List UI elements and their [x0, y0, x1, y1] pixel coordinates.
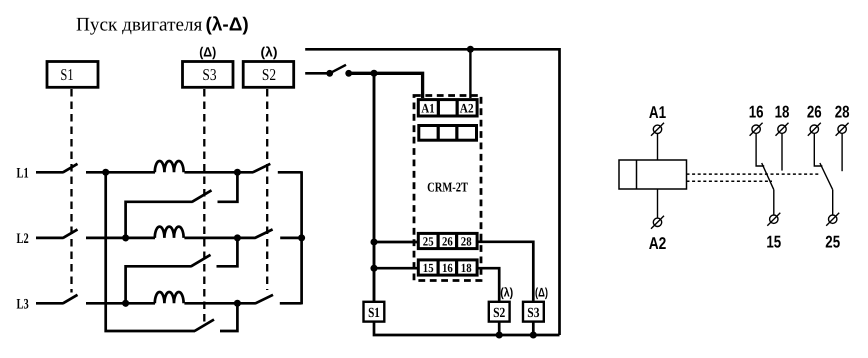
terminal 25 — [826, 213, 839, 226]
svg-text:S3: S3 — [202, 65, 216, 84]
junction dot L1 x237 — [234, 169, 241, 176]
dotted actuation link upper — [687, 173, 819, 175]
contact dot left — [326, 70, 333, 77]
wire L2 winding to star switch — [184, 237, 255, 240]
wire delta branch 3 right part — [220, 303, 237, 331]
wire S1 control vertical — [373, 73, 376, 301]
wire L2 to star bus — [280, 237, 301, 240]
wire common 15 — [773, 190, 775, 215]
winding W2 (inductor) — [155, 227, 184, 238]
wire delta branch 2 (L3 start to L2 end) — [126, 266, 192, 303]
contact K3(delta) blade on branch 3 — [195, 320, 214, 332]
relay CRM-2T dashed outline — [414, 96, 481, 281]
wire coil to A2 — [657, 189, 659, 218]
svg-text:28: 28 — [835, 103, 850, 122]
terminal A2 — [651, 216, 664, 229]
wire delta branch 3 (L1 start to L3 end) — [106, 172, 195, 331]
junction dot A2 branch — [467, 46, 474, 53]
wire S3 bottom — [532, 322, 535, 335]
contact K2(star) blade on L1 — [253, 164, 270, 173]
svg-text:L1: L1 — [17, 166, 29, 182]
wire L1 winding to star switch — [184, 171, 253, 174]
svg-text:S3: S3 — [527, 306, 539, 321]
winding W1 (inductor) — [155, 161, 184, 172]
dashed link S2 to star contacts — [266, 89, 268, 290]
junction dot L3 x237 — [234, 300, 241, 307]
svg-text:(λ): (λ) — [500, 286, 513, 300]
svg-text:S2: S2 — [493, 306, 505, 321]
pushbutton box S2 (bottom) — [489, 302, 510, 322]
title: Пуск двигателя (λ-Δ) — [76, 15, 249, 36]
junction dot L1 x106 — [102, 169, 109, 176]
terminal row blank — [419, 125, 477, 141]
svg-text:18: 18 — [461, 261, 472, 275]
svg-text:A2: A2 — [649, 234, 667, 253]
svg-text:16: 16 — [749, 103, 764, 122]
relay output contact blade (top) — [330, 65, 346, 74]
svg-text:A1: A1 — [649, 103, 666, 122]
contact dot right — [345, 70, 352, 77]
wire to terminal 15 row — [374, 267, 419, 270]
pushbutton box S3 (bottom) — [523, 302, 544, 322]
wire terminal 18 to S2 — [477, 268, 499, 302]
coil K (relay coil box) — [619, 160, 687, 189]
wire terminal 28 to S3 — [477, 242, 533, 302]
svg-text:S1: S1 — [60, 65, 73, 84]
wire pin 18 — [781, 133, 783, 170]
svg-text:18: 18 — [775, 103, 790, 122]
wire L3 to winding — [86, 302, 155, 305]
wire pin 16 with fixed-contact foot — [756, 133, 764, 166]
dashed link S1 to contacts — [70, 89, 72, 293]
junction dot L2 x126 — [122, 234, 129, 241]
wire L1 to star bus — [278, 171, 302, 174]
junction dot 15-row tap — [370, 265, 377, 272]
svg-text:CRM-2T: CRM-2T — [427, 180, 468, 195]
pushbutton box S1 (bottom) — [364, 302, 385, 322]
wire common 25 — [832, 190, 834, 215]
terminal row A1/A2 — [418, 99, 477, 117]
svg-text:S1: S1 — [368, 306, 380, 321]
winding W3 (inductor) — [155, 292, 184, 303]
svg-text:26: 26 — [442, 235, 453, 249]
switch box S1 (top) — [47, 62, 98, 88]
contact K2(star) blade on L2 — [255, 229, 273, 238]
junction dot S3 on bottom bus — [530, 331, 537, 338]
svg-text:25: 25 — [423, 235, 434, 249]
svg-text:(Δ): (Δ) — [199, 45, 216, 60]
terminal 28 — [836, 123, 849, 136]
wire L3 to star bus — [280, 302, 302, 305]
junction dot S2 on bottom bus — [496, 331, 503, 338]
terminal row 25 26 28 — [418, 233, 477, 250]
wire bottom bus — [374, 322, 560, 335]
contact K1 blade on L2 — [63, 229, 78, 238]
wire to terminal 25 row — [374, 241, 419, 244]
terminal 18 — [776, 123, 789, 136]
junction dot S1 branch — [370, 70, 377, 77]
terminal row 15 16 18 — [418, 259, 477, 276]
svg-text:(λ-Δ): (λ-Δ) — [206, 15, 249, 36]
wire A2 feed drop — [469, 49, 471, 98]
switch box S2 (top) — [243, 62, 294, 88]
terminal A1 — [651, 123, 664, 136]
svg-text:Пуск двигателя: Пуск двигателя — [76, 15, 203, 36]
wire pin 28 — [841, 133, 843, 171]
contact K1 blade on L3 — [63, 295, 78, 304]
svg-text:A1: A1 — [421, 100, 434, 115]
wire supply top line — [305, 49, 559, 335]
changeover blade 15-16 — [762, 163, 774, 190]
wire delta branch 1 right part — [218, 172, 238, 202]
svg-text:15: 15 — [766, 233, 781, 252]
svg-text:(λ): (λ) — [261, 45, 278, 60]
terminal 16 — [750, 123, 763, 136]
wire S2 bottom — [498, 322, 501, 335]
junction dot 25-row tap — [370, 238, 377, 245]
contact K2(star) blade on L3 — [256, 295, 274, 304]
dashed link S3 to delta contacts — [203, 89, 205, 324]
svg-text:(Δ): (Δ) — [535, 286, 548, 300]
junction dot L2 x237 — [234, 234, 241, 241]
svg-text:25: 25 — [825, 233, 840, 252]
wire contact to A1 feed — [349, 73, 423, 98]
wire L3 in — [36, 302, 63, 305]
svg-text:L2: L2 — [17, 231, 29, 247]
junction dot L2 star bus — [298, 234, 305, 241]
svg-text:L3: L3 — [17, 297, 29, 313]
svg-text:28: 28 — [461, 235, 472, 249]
changeover blade 25-26 — [820, 163, 833, 190]
wire supply second line — [305, 72, 330, 75]
terminal 15 — [767, 213, 780, 226]
wire L1 to winding — [86, 171, 155, 174]
wire pin 26 with fixed-contact foot — [814, 133, 822, 166]
svg-text:16: 16 — [442, 261, 453, 275]
wire L1 in — [36, 171, 63, 174]
switch box S3 (top) — [183, 62, 234, 88]
wire L3 winding to star switch — [184, 302, 256, 305]
svg-text:S2: S2 — [262, 65, 276, 84]
wire L2 in — [36, 237, 63, 240]
dotted actuation link lower — [687, 180, 773, 182]
svg-text:26: 26 — [807, 103, 822, 122]
contact K3(delta) blade on branch 1 — [192, 190, 211, 202]
wire L2 to winding — [86, 237, 155, 240]
wire delta branch 2 right part — [217, 238, 238, 266]
wire A1 to coil — [657, 134, 659, 161]
svg-text:15: 15 — [423, 261, 434, 275]
wire star bus (right vertical) — [300, 171, 303, 304]
svg-text:A2: A2 — [460, 100, 474, 115]
contact K1 blade on L1 — [63, 164, 78, 173]
wire delta branch 1 (L2 start to L1 end) — [126, 202, 193, 238]
junction dot L3 x126 — [122, 300, 129, 307]
contact K3(delta) blade on branch 2 — [191, 255, 210, 266]
terminal 26 — [808, 123, 821, 136]
